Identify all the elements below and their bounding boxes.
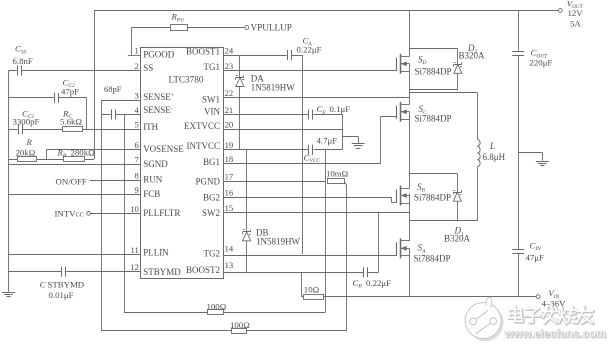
svg-text:PLLFLTR: PLLFLTR bbox=[143, 208, 180, 218]
svg-text:19: 19 bbox=[225, 140, 234, 150]
svg-text:PLLIN: PLLIN bbox=[143, 248, 169, 258]
svg-text:10Ω: 10Ω bbox=[304, 284, 320, 294]
svg-text:2: 2 bbox=[135, 61, 139, 71]
svg-text:SENSE-: SENSE- bbox=[143, 105, 173, 115]
svg-text:12: 12 bbox=[130, 262, 139, 272]
svg-text:220μF: 220μF bbox=[530, 57, 553, 67]
svg-text:47μF: 47μF bbox=[526, 252, 545, 262]
svg-text:SENSE+: SENSE+ bbox=[143, 92, 175, 102]
svg-text:23: 23 bbox=[225, 61, 234, 71]
svg-text:EXTVCC: EXTVCC bbox=[184, 121, 220, 131]
svg-text:L: L bbox=[489, 141, 495, 151]
svg-text:VPULLUP: VPULLUP bbox=[251, 23, 292, 33]
svg-text:8: 8 bbox=[135, 170, 139, 180]
svg-text:6.8μH: 6.8μH bbox=[483, 152, 506, 162]
svg-text:ITH: ITH bbox=[143, 122, 158, 132]
svg-text:TG1: TG1 bbox=[204, 62, 221, 72]
svg-text:Si7884DP: Si7884DP bbox=[415, 114, 452, 124]
svg-text:PGND: PGND bbox=[195, 176, 220, 186]
svg-text:1: 1 bbox=[135, 45, 139, 55]
svg-text:13: 13 bbox=[225, 260, 234, 270]
svg-text:68pF: 68pF bbox=[104, 84, 122, 94]
svg-text:22: 22 bbox=[225, 88, 234, 98]
svg-text:3: 3 bbox=[135, 90, 139, 100]
svg-text:VOSENSE: VOSENSE bbox=[143, 144, 184, 154]
svg-text:SW1: SW1 bbox=[202, 94, 220, 104]
svg-text:6: 6 bbox=[135, 140, 140, 150]
svg-text:Si7884DP: Si7884DP bbox=[414, 253, 451, 263]
svg-text:TG2: TG2 bbox=[204, 249, 221, 259]
svg-text:1N5819HW: 1N5819HW bbox=[251, 83, 295, 93]
svg-text:ON/OFF: ON/OFF bbox=[56, 176, 87, 186]
svg-text:10mΩ: 10mΩ bbox=[326, 169, 349, 179]
svg-text:9: 9 bbox=[135, 185, 139, 195]
svg-text:0.22μF: 0.22μF bbox=[366, 278, 391, 288]
svg-text:VIN: VIN bbox=[204, 107, 220, 117]
svg-text:6.8nF: 6.8nF bbox=[13, 56, 33, 66]
svg-text:47pF: 47pF bbox=[61, 86, 79, 96]
svg-text:LTC3780: LTC3780 bbox=[169, 74, 204, 84]
svg-text:20kΩ: 20kΩ bbox=[16, 147, 36, 157]
svg-text:100Ω: 100Ω bbox=[207, 302, 227, 312]
svg-text:3300pF: 3300pF bbox=[13, 117, 40, 127]
svg-text:SGND: SGND bbox=[143, 159, 168, 169]
svg-text:5A: 5A bbox=[570, 19, 581, 29]
svg-text:B320A: B320A bbox=[459, 50, 486, 60]
svg-text:PGOOD: PGOOD bbox=[143, 50, 175, 60]
svg-text:0.01μF: 0.01μF bbox=[49, 290, 74, 300]
svg-text:4.7μF: 4.7μF bbox=[317, 136, 338, 146]
svg-text:Si7884DP: Si7884DP bbox=[415, 66, 452, 76]
svg-text:11: 11 bbox=[131, 245, 139, 255]
svg-text:17: 17 bbox=[225, 172, 234, 182]
svg-text:BOOST2: BOOST2 bbox=[186, 265, 220, 275]
svg-text:SW2: SW2 bbox=[202, 208, 220, 218]
svg-text:100Ω: 100Ω bbox=[230, 320, 250, 330]
svg-text:5: 5 bbox=[135, 120, 139, 130]
svg-text:Si7884DP: Si7884DP bbox=[414, 192, 451, 202]
svg-text:7: 7 bbox=[135, 155, 140, 165]
svg-text:B320A: B320A bbox=[444, 234, 471, 244]
svg-text:4: 4 bbox=[135, 105, 140, 115]
svg-text:16: 16 bbox=[225, 187, 234, 197]
svg-text:20: 20 bbox=[225, 120, 234, 130]
svg-text:10: 10 bbox=[130, 204, 139, 214]
svg-text:14: 14 bbox=[225, 244, 234, 254]
svg-text:RUN: RUN bbox=[143, 175, 163, 185]
svg-text:24: 24 bbox=[225, 45, 234, 55]
svg-text:C: C bbox=[40, 280, 46, 290]
svg-text:12V: 12V bbox=[568, 8, 584, 18]
svg-text:BG1: BG1 bbox=[203, 157, 220, 167]
svg-text:0.22μF: 0.22μF bbox=[297, 45, 322, 55]
svg-text:0.1μF: 0.1μF bbox=[330, 104, 351, 114]
svg-text:www.elecfans.com: www.elecfans.com bbox=[504, 328, 606, 340]
svg-text:STBYMD: STBYMD bbox=[48, 280, 85, 290]
svg-text:21: 21 bbox=[225, 105, 234, 115]
svg-text:FCB: FCB bbox=[143, 189, 160, 199]
svg-text:BOOST1: BOOST1 bbox=[186, 47, 220, 57]
svg-text:INTVCC: INTVCC bbox=[187, 141, 221, 151]
svg-text:STBYMD: STBYMD bbox=[143, 267, 181, 277]
svg-text:280kΩ: 280kΩ bbox=[71, 147, 96, 157]
svg-text:R: R bbox=[26, 137, 33, 147]
svg-text:1N5819HW: 1N5819HW bbox=[256, 236, 300, 246]
svg-text:18: 18 bbox=[225, 154, 234, 164]
svg-text:5.6kΩ: 5.6kΩ bbox=[60, 117, 82, 127]
svg-text:15: 15 bbox=[225, 203, 234, 213]
svg-text:BG2: BG2 bbox=[203, 192, 220, 202]
svg-text:SS: SS bbox=[143, 63, 153, 73]
